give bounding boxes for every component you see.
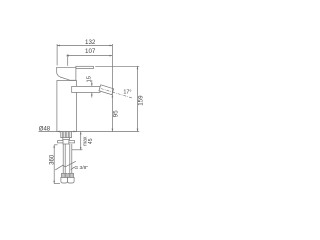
dim O48 arrows on deck	[57, 131, 60, 133]
countertop deck line	[39, 131, 140, 133]
dim 132 line	[57, 45, 112, 47]
fixing nut wings	[58, 141, 75, 143]
faucet body	[57, 81, 77, 132]
hose connector left: nut	[61, 177, 68, 183]
svg-text:17°: 17°	[123, 90, 131, 96]
supply pipe right	[69, 144, 71, 173]
fixing nut body	[63, 140, 69, 144]
dim 107 line	[68, 55, 113, 57]
dim max45 label	[83, 136, 94, 146]
dim 132 left extension	[56, 44, 58, 65]
dim max45 bottom extension	[72, 149, 83, 151]
dim 360 line	[53, 145, 55, 184]
dim 15 arrows	[91, 80, 93, 86]
pipe break zigzag	[55, 161, 76, 170]
dim 159 line	[137, 66, 139, 131]
lever handle bar (top, extends back)	[76, 66, 94, 68]
svg-text:45: 45	[88, 138, 94, 144]
right extension / dim 95 line	[111, 44, 113, 132]
hose connector right: nut	[68, 177, 75, 183]
stud below nut	[71, 144, 73, 150]
dim 360 bottom extension	[54, 183, 60, 185]
svg-text:159: 159	[137, 95, 144, 106]
svg-text:360: 360	[50, 154, 56, 165]
dim 107 extension from axis	[67, 57, 69, 66]
hose connector left: threaded end	[62, 173, 67, 177]
svg-text:107: 107	[85, 48, 96, 55]
G 3/8 leader	[71, 167, 75, 169]
threaded shank with hatch	[61, 132, 72, 138]
svg-text:Ø48: Ø48	[39, 126, 51, 132]
svg-text:15: 15	[87, 76, 93, 82]
spout tip angled 17 deg	[99, 85, 114, 95]
svg-text:95: 95	[113, 110, 120, 117]
supply pipe left	[62, 144, 64, 173]
handle grip (front, slanted underside)	[57, 67, 76, 80]
dim max45 line	[80, 132, 82, 151]
dim 360 top extension	[54, 144, 57, 146]
shank rod below threads	[62, 138, 64, 140]
svg-text:G 3/8": G 3/8"	[74, 165, 88, 171]
spout axis dash-dot line 17 deg	[101, 89, 133, 99]
svg-text:132: 132	[85, 39, 96, 46]
spout tube (horizontal)	[72, 86, 100, 92]
dim 159 top extension	[95, 65, 139, 67]
hose connector right: threaded end	[68, 173, 73, 177]
